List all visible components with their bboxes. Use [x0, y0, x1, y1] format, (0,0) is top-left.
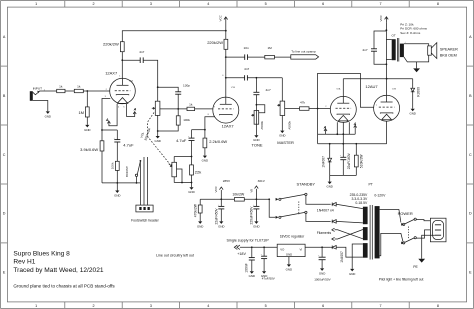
switch SW3 POWER pole 2: [380, 230, 431, 256]
input jack J1: [30, 86, 57, 111]
resistor R3 1M: [78, 91, 89, 125]
regulator U1 18VDC: [277, 234, 331, 271]
svg-text:2.2k/0.6W: 2.2k/0.6W: [209, 139, 227, 144]
capacitor C1 4n7: [139, 50, 157, 101]
svg-text:GND: GND: [249, 274, 255, 278]
svg-text:100nF: 100nF: [244, 263, 248, 272]
svg-text:VCC: VCC: [219, 14, 223, 21]
svg-text:GND: GND: [319, 271, 325, 275]
svg-text:GND: GND: [326, 185, 332, 189]
svg-text:7: 7: [379, 304, 381, 308]
resistor R9 220k/2W (V2 plate): [207, 39, 228, 49]
svg-text:GND: GND: [349, 272, 355, 276]
diode D3 1N4007 (HT rect top): [332, 203, 363, 209]
capacitor C3 130p: [157, 84, 190, 116]
net flag Filaments 1: [332, 228, 363, 239]
svg-text:GND: GND: [409, 112, 415, 116]
standby gang dashed link: [298, 202, 300, 215]
svg-text:GND: GND: [253, 138, 259, 142]
resistor R4 220k/2W (V1 plate): [103, 42, 124, 79]
svg-text:6: 6: [322, 2, 324, 6]
net flag A (power heater left): [323, 125, 327, 134]
svg-text:4: 4: [207, 304, 209, 308]
svg-text:GND: GND: [202, 159, 208, 163]
gang2 top rail: [174, 156, 192, 165]
svg-text:STANDBY: STANDBY: [297, 181, 316, 186]
svg-text:3: 3: [150, 304, 152, 308]
svg-text:Pilot light + line filtering l: Pilot light + line filtering left out: [379, 277, 424, 281]
svg-text:BK8 OEM: BK8 OEM: [440, 54, 457, 58]
svg-text:10k/2W: 10k/2W: [232, 192, 245, 196]
svg-text:GND: GND: [218, 224, 224, 228]
node grid V1: [86, 90, 88, 92]
power flag VCC (preamp): [219, 14, 228, 39]
svg-text:C: C: [3, 153, 6, 157]
node V1 plate: [121, 59, 123, 61]
capacitor C6 4n7 (tone): [253, 78, 271, 124]
resistor R8 1k (V2 grid): [187, 103, 213, 111]
ground (TONE): [253, 135, 259, 142]
svg-text:100k: 100k: [111, 162, 115, 169]
svg-text:10n: 10n: [244, 46, 249, 50]
svg-text:Footswitch header: Footswitch header: [131, 219, 160, 223]
svg-text:1k: 1k: [77, 85, 81, 89]
svg-text:GND: GND: [253, 224, 259, 228]
svg-text:GND: GND: [286, 267, 292, 271]
triode V1A 12AX7: [105, 71, 136, 104]
switch SW2 STANDBY pole 1: [276, 181, 331, 204]
svg-text:2: 2: [92, 2, 94, 6]
PE earth: [413, 235, 435, 269]
switch SW1 BOOST: [125, 160, 141, 183]
triode V2B 12AU7: [374, 64, 400, 121]
resistor R5 3.9k/0.6W: [80, 141, 104, 183]
potentiometer RV2 TONE A500k: [251, 111, 264, 148]
svg-text:VB: VB: [249, 189, 253, 193]
svg-text:2: 2: [92, 304, 94, 308]
speaker LS1: [428, 43, 458, 59]
svg-text:470k/2W: 470k/2W: [194, 203, 198, 217]
label VOL B2M dual: [139, 127, 151, 141]
switch SW2 STANDBY pole 2: [269, 199, 331, 221]
global label +18V: [234, 245, 277, 256]
svg-text:OT: OT: [392, 34, 396, 38]
svg-text:130p: 130p: [183, 84, 190, 88]
cathode rail 12AU7: [318, 121, 387, 145]
svg-text:1M: 1M: [267, 46, 272, 50]
svg-text:0-120V: 0-120V: [374, 193, 386, 197]
net flag 301V: [249, 179, 265, 199]
svg-text:1k: 1k: [59, 85, 63, 89]
svg-text:A: A: [353, 122, 357, 126]
svg-text:A500k: A500k: [288, 121, 292, 130]
capacitor C9 22uF/450V: [214, 199, 224, 228]
svg-text:1M: 1M: [78, 110, 84, 115]
power flag VCC 285V: [214, 179, 231, 199]
svg-text:100k: 100k: [183, 118, 190, 122]
capacitor C2 4.7uF (boost): [102, 130, 134, 161]
svg-text:GND: GND: [154, 139, 160, 143]
wire grid loop to V2B: [318, 73, 374, 108]
svg-text:1N4007: 1N4007: [340, 251, 344, 263]
power flag VCC (output): [379, 14, 388, 30]
capacitor C11 100nF: [244, 247, 255, 278]
dashed gang link VOL: [148, 113, 170, 164]
svg-text:To line out opamp: To line out opamp: [291, 49, 316, 53]
switch SW3 POWER pole 1: [380, 210, 431, 226]
svg-text:Rev H1: Rev H1: [13, 259, 35, 266]
net flag A (right heater): [126, 108, 136, 117]
svg-text:4n7: 4n7: [362, 48, 367, 52]
svg-text:PE: PE: [413, 265, 418, 269]
wire grid row V1: [65, 90, 74, 92]
svg-text:GND: GND: [286, 252, 292, 256]
svg-text:510R/2W: 510R/2W: [359, 154, 363, 169]
svg-text:22uF/160V: 22uF/160V: [347, 152, 351, 169]
svg-text:D: D: [469, 212, 472, 216]
svg-text:1: 1: [35, 2, 37, 6]
capacitor C13 1000uF/50V: [314, 247, 330, 281]
svg-text:5: 5: [265, 2, 267, 6]
svg-text:285V: 285V: [223, 179, 231, 183]
B+ line to OT: [386, 29, 392, 65]
net flag A (left heater): [105, 117, 117, 126]
svg-text:MASTER: MASTER: [277, 140, 294, 145]
svg-text:1N4007: 1N4007: [321, 156, 325, 168]
svg-text:4n7: 4n7: [244, 67, 249, 71]
title text: [13, 251, 115, 289]
svg-text:1N4007 x4: 1N4007 x4: [317, 209, 334, 213]
svg-text:220uF/450V: 220uF/450V: [249, 206, 253, 225]
tone wiper loop: [256, 104, 265, 113]
diode D2 K3000: [411, 79, 421, 109]
gang2 bottom rail: [174, 182, 195, 195]
resistor R15 2.2k/0.6W: [202, 138, 228, 162]
plate rail: [343, 78, 412, 80]
svg-text:12AX7: 12AX7: [222, 123, 235, 128]
svg-text:INPUT: INPUT: [33, 86, 42, 90]
resistor R2 1k: [74, 85, 110, 93]
svg-text:Sec Z: 8 ohms: Sec Z: 8 ohms: [400, 31, 420, 35]
svg-text:4n7: 4n7: [266, 88, 271, 92]
svg-text:301V: 301V: [258, 179, 266, 183]
svg-text:18VDC regulator: 18VDC regulator: [280, 234, 305, 238]
diode D5 1N4007 (reg feed): [331, 246, 363, 263]
svg-text:SPEAKER: SPEAKER: [440, 47, 458, 51]
svg-text:7: 7: [379, 2, 381, 6]
resistor R14 10k/2W: [232, 192, 245, 201]
svg-text:GND: GND: [114, 193, 120, 197]
svg-text:K3000: K3000: [417, 87, 421, 97]
svg-text:GND: GND: [188, 190, 194, 194]
connector J2 footswitch header: [131, 205, 160, 223]
svg-text:3: 3: [150, 2, 152, 6]
wire heater row: [318, 109, 356, 144]
svg-text:V1A: V1A: [129, 79, 134, 82]
svg-text:Traced by Matt Weed, 12/2021: Traced by Matt Weed, 12/2021: [13, 267, 103, 274]
svg-text:C: C: [469, 153, 472, 157]
resistor R12 510R/2W: [354, 144, 363, 176]
connector J3 IEC inlet: [430, 218, 446, 242]
capacitor C4 10n: [226, 46, 265, 60]
svg-text:4: 4: [207, 2, 209, 6]
svg-text:8: 8: [437, 304, 439, 308]
ground (input jack): [45, 111, 51, 118]
resistor R1 1k: [57, 85, 65, 93]
svg-text:V2A: V2A: [336, 88, 341, 91]
B+ supply rail: [200, 198, 270, 200]
hier label To line out opamp: [291, 49, 319, 59]
net flag A (power heater right): [353, 122, 357, 134]
ground (1M): [84, 125, 90, 132]
svg-text:GND: GND: [84, 128, 90, 132]
svg-text:V2B: V2B: [392, 89, 397, 91]
svg-text:8: 8: [437, 2, 439, 6]
ground (VOL): [154, 136, 160, 143]
power gang dashed link: [408, 227, 410, 240]
V1 heater pins: [117, 104, 126, 117]
cathode rail wire: [102, 182, 140, 191]
resistor R6 100k (boost): [111, 161, 120, 183]
resistor R10 1M: [265, 46, 291, 59]
capacitor C8 4n7 (OT snubber): [362, 31, 386, 64]
transformer T1 OT: [392, 22, 428, 61]
svg-text:220k/2W: 220k/2W: [207, 40, 223, 45]
svg-text:4.7uF: 4.7uF: [176, 138, 187, 143]
wiper wire to V2 grid: [160, 108, 187, 110]
svg-text:A: A: [323, 125, 327, 129]
svg-text:47k: 47k: [300, 100, 305, 104]
svg-text:5: 5: [265, 304, 267, 308]
capacitor C14 4.7uF (V2 cathode): [176, 130, 194, 157]
svg-text:12AX7: 12AX7: [105, 71, 118, 76]
resistor R16 22k: [190, 165, 202, 183]
svg-text:GND: GND: [45, 114, 51, 118]
svg-text:GND: GND: [279, 134, 285, 138]
potentiometer RV1 VOL gang 1: [152, 101, 160, 136]
chassis ground (speaker): [413, 68, 420, 72]
svg-text:GND: GND: [197, 224, 203, 228]
svg-text:12AU7: 12AU7: [365, 84, 378, 89]
svg-text:VCC: VCC: [214, 185, 218, 192]
svg-text:A: A: [133, 108, 137, 112]
triode V1B 12AX7: [208, 75, 239, 128]
wire plate to cap: [122, 59, 140, 61]
capacitor C7 22uF/160V: [340, 144, 351, 176]
svg-text:TONE: TONE: [251, 143, 262, 148]
svg-text:47uF/50V: 47uF/50V: [262, 277, 275, 281]
diode D4 1N4007 (HT rect bottom): [332, 220, 363, 224]
svg-text:+18V: +18V: [237, 252, 246, 256]
resistor R13 470k/2W: [194, 199, 204, 228]
svg-text:22k: 22k: [195, 169, 201, 174]
svg-text:1: 1: [35, 304, 37, 308]
net flag Filaments 2: [332, 230, 363, 241]
resistor R11 47k: [300, 100, 331, 110]
capacitor C5 4n7 (to tone): [226, 67, 282, 80]
ground (K3000): [409, 109, 415, 116]
bias bottom rail + ground: [326, 175, 356, 188]
V2 plate chain wire: [225, 30, 227, 97]
svg-text:Line out circuitry left out: Line out circuitry left out: [156, 254, 194, 258]
svg-text:3.9k/0.6W: 3.9k/0.6W: [80, 147, 98, 152]
svg-text:Single supply for TL071IP: Single supply for TL071IP: [227, 239, 270, 243]
svg-text:A500k: A500k: [260, 121, 264, 130]
capacitor C12 47uF/50V: [261, 247, 275, 280]
footswitch header wires: [140, 157, 147, 205]
svg-text:PT: PT: [369, 182, 373, 186]
ground (MASTER): [279, 131, 285, 138]
capacitor C10 220uF/450V: [249, 199, 259, 228]
18V winding top tap to ground: [349, 244, 363, 276]
svg-text:Ground plane tied to chassis a: Ground plane tied to chassis at all PCB …: [13, 283, 115, 288]
svg-text:V1B: V1B: [231, 87, 236, 89]
V1 cathode wire: [101, 99, 110, 141]
svg-text:4n7: 4n7: [139, 50, 144, 54]
svg-text:1000uF/50V: 1000uF/50V: [314, 278, 330, 282]
VCC rail top left: [122, 31, 226, 42]
V2 cathode wire: [192, 117, 215, 138]
svg-text:A: A: [105, 118, 109, 122]
svg-text:BOOST: BOOST: [125, 166, 129, 177]
svg-text:0-18.5V: 0-18.5V: [355, 201, 368, 205]
svg-text:VI: VI: [300, 247, 303, 251]
gang2 wiper wire: [177, 169, 183, 183]
svg-text:4.7uF: 4.7uF: [123, 142, 134, 147]
svg-text:Filaments: Filaments: [317, 231, 332, 235]
svg-text:22uF/450V: 22uF/450V: [214, 208, 218, 225]
svg-text:6: 6: [322, 304, 324, 308]
potentiometer RV1b VOL gang 2: [169, 157, 177, 183]
diode D1 1N4007 (cathode): [321, 144, 331, 176]
triode V2A 12AU7: [325, 79, 356, 123]
ground (boost rail): [114, 191, 120, 198]
svg-text:1k: 1k: [189, 103, 193, 107]
resistor R7 100k: [157, 116, 191, 132]
svg-text:220k/2W: 220k/2W: [103, 42, 119, 47]
svg-text:Supro Blues King 8: Supro Blues King 8: [13, 251, 70, 258]
svg-text:VCC: VCC: [379, 14, 383, 21]
potentiometer RV3 MASTER A500k: [277, 78, 299, 145]
transformer T2 PT: [350, 182, 387, 259]
svg-text:D: D: [3, 212, 6, 216]
speaker wires: [404, 44, 429, 69]
